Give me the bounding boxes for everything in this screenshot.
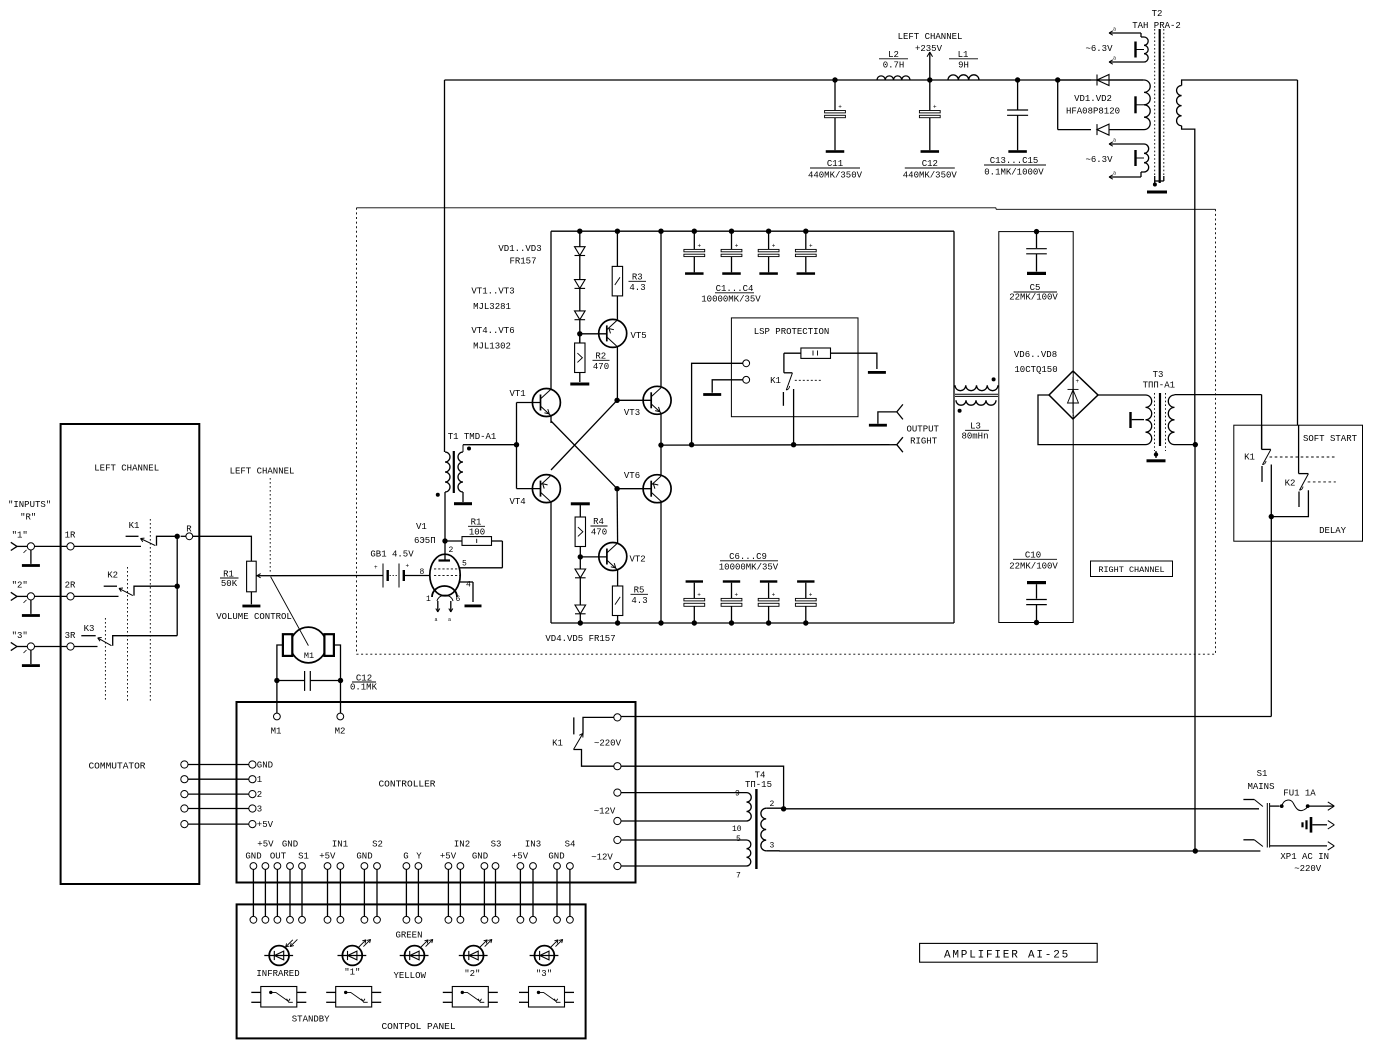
svg-text:GND: GND <box>548 851 564 861</box>
svg-text:VT4..VT6: VT4..VT6 <box>471 326 514 336</box>
svg-text:S3: S3 <box>491 839 502 849</box>
svg-text:~220V: ~220V <box>1294 864 1322 874</box>
svg-text:"3": "3" <box>536 969 552 979</box>
svg-text:STANDBY: STANDBY <box>292 1015 330 1025</box>
svg-text:VT1..VT3: VT1..VT3 <box>471 287 514 297</box>
svg-text:COMMUTATOR: COMMUTATOR <box>88 761 145 772</box>
svg-text:3R: 3R <box>65 631 76 641</box>
svg-text:YELLOW: YELLOW <box>393 971 426 981</box>
svg-text:CONTROLLER: CONTROLLER <box>378 779 435 790</box>
svg-text:GND: GND <box>282 839 298 849</box>
svg-text:+: + <box>809 243 813 250</box>
svg-text:INFRARED: INFRARED <box>256 969 299 979</box>
svg-text:RIGHT: RIGHT <box>910 437 938 447</box>
svg-text:MJL3281: MJL3281 <box>473 302 511 312</box>
svg-text:VD4.VD5 FR157: VD4.VD5 FR157 <box>545 634 615 644</box>
svg-text:a: a <box>1113 56 1116 62</box>
svg-text:2: 2 <box>257 790 262 800</box>
svg-text:4.3: 4.3 <box>631 596 647 606</box>
svg-text:a: a <box>448 617 451 623</box>
svg-text:ТПП-А1: ТПП-А1 <box>1143 380 1175 390</box>
svg-text:+: + <box>809 592 813 599</box>
svg-text:T3: T3 <box>1153 370 1164 380</box>
svg-text:3: 3 <box>257 805 262 815</box>
svg-text:G: G <box>403 851 408 861</box>
svg-text:"2": "2" <box>464 969 480 979</box>
svg-text:TAH PRA-2: TAH PRA-2 <box>1132 21 1181 31</box>
svg-text:OUT: OUT <box>270 851 287 861</box>
svg-text:GND: GND <box>472 851 488 861</box>
svg-text:22MK/100V: 22MK/100V <box>1009 293 1058 303</box>
svg-text:2R: 2R <box>65 581 76 591</box>
svg-text:1: 1 <box>257 775 262 785</box>
svg-text:LEFT CHANNEL: LEFT CHANNEL <box>94 464 159 474</box>
svg-text:T1 TMD-A1: T1 TMD-A1 <box>448 432 497 442</box>
svg-text:~6.3V: ~6.3V <box>1085 44 1113 54</box>
svg-text:+5V: +5V <box>257 820 274 830</box>
svg-text:K1: K1 <box>129 521 140 531</box>
svg-text:9H: 9H <box>958 61 969 71</box>
svg-text:M1: M1 <box>271 727 282 737</box>
svg-text:IN1: IN1 <box>332 839 348 849</box>
svg-text:VD1.VD2: VD1.VD2 <box>1074 94 1112 104</box>
svg-text:S1: S1 <box>1257 769 1268 779</box>
svg-text:FU1 1A: FU1 1A <box>1283 789 1316 799</box>
svg-text:XP1 AC IN: XP1 AC IN <box>1280 852 1329 862</box>
svg-text:K1: K1 <box>770 376 781 386</box>
svg-text:a: a <box>1113 138 1116 144</box>
svg-text:GND: GND <box>257 761 273 771</box>
svg-text:Y: Y <box>416 851 422 861</box>
svg-text:a: a <box>435 617 438 623</box>
svg-text:a: a <box>1113 171 1116 177</box>
svg-text:"R": "R" <box>20 512 36 522</box>
svg-text:~6.3V: ~6.3V <box>1085 155 1113 165</box>
svg-text:CONTPOL PANEL: CONTPOL PANEL <box>381 1021 455 1032</box>
svg-text:"1": "1" <box>344 968 360 978</box>
svg-text:+: + <box>838 104 842 111</box>
svg-text:K1: K1 <box>1244 452 1255 462</box>
svg-text:VT5: VT5 <box>631 331 647 341</box>
svg-text:IN2: IN2 <box>454 839 470 849</box>
svg-text:+: + <box>406 563 410 570</box>
svg-text:+5V: +5V <box>440 851 457 861</box>
svg-text:+: + <box>735 243 739 250</box>
svg-text:C12: C12 <box>922 159 938 169</box>
svg-text:K3: K3 <box>84 624 95 634</box>
svg-text:VT4: VT4 <box>510 497 526 507</box>
svg-text:OUTPUT: OUTPUT <box>907 425 940 435</box>
svg-text:DELAY: DELAY <box>1319 526 1347 536</box>
svg-text:6Э5П: 6Э5П <box>414 536 436 546</box>
svg-text:0.1MK/1000V: 0.1MK/1000V <box>984 168 1044 178</box>
svg-text:VT2: VT2 <box>630 555 646 565</box>
svg-text:10CTQ150: 10CTQ150 <box>1014 365 1057 375</box>
svg-text:C13...C15: C13...C15 <box>990 156 1039 166</box>
svg-text:+: + <box>374 564 378 571</box>
svg-text:T2: T2 <box>1152 9 1163 19</box>
svg-text:-: - <box>1072 412 1076 419</box>
svg-text:S2: S2 <box>372 839 383 849</box>
svg-text:5: 5 <box>736 835 741 844</box>
svg-text:VT6: VT6 <box>624 471 640 481</box>
svg-text:22MK/100V: 22MK/100V <box>1009 562 1058 572</box>
svg-text:+: + <box>698 243 702 250</box>
svg-text:RIGHT CHANNEL: RIGHT CHANNEL <box>1098 565 1164 575</box>
svg-text:LEFT CHANNEL: LEFT CHANNEL <box>898 32 963 42</box>
svg-text:440MK/350V: 440MK/350V <box>808 171 863 181</box>
svg-text:GREEN: GREEN <box>395 931 422 941</box>
svg-text:HFA08P8120: HFA08P8120 <box>1066 107 1120 117</box>
svg-text:R4: R4 <box>593 517 604 527</box>
svg-text:GND: GND <box>245 851 261 861</box>
svg-text:T4: T4 <box>755 771 766 781</box>
svg-text:S4: S4 <box>565 839 576 849</box>
svg-text:SOFT START: SOFT START <box>1303 434 1358 444</box>
svg-text:VD1..VD3: VD1..VD3 <box>498 244 541 254</box>
svg-text:VT3: VT3 <box>624 408 640 418</box>
svg-text:"3": "3" <box>12 631 28 641</box>
svg-text:~220V: ~220V <box>594 739 622 749</box>
svg-text:VT1: VT1 <box>510 389 526 399</box>
svg-text:440MK/350V: 440MK/350V <box>903 171 958 181</box>
svg-text:470: 470 <box>591 528 607 538</box>
svg-text:K1: K1 <box>552 739 563 749</box>
svg-text:R: R <box>186 525 192 535</box>
svg-text:+: + <box>933 104 937 111</box>
svg-text:0.7H: 0.7H <box>883 61 905 71</box>
svg-text:~12V: ~12V <box>594 807 616 817</box>
svg-text:10: 10 <box>732 825 742 834</box>
svg-text:MAINS: MAINS <box>1247 782 1274 792</box>
svg-text:+: + <box>735 592 739 599</box>
svg-text:+: + <box>772 592 776 599</box>
svg-text:3: 3 <box>770 842 775 851</box>
svg-text:MJL1302: MJL1302 <box>473 341 511 351</box>
svg-text:9: 9 <box>735 790 740 799</box>
svg-text:6: 6 <box>456 595 461 604</box>
svg-text:a: a <box>1113 27 1116 33</box>
svg-text:0.1MK: 0.1MK <box>350 683 378 693</box>
svg-text:LSP PROTECTION: LSP PROTECTION <box>754 327 830 337</box>
svg-text:1: 1 <box>426 595 431 604</box>
svg-text:ТП-15: ТП-15 <box>745 780 772 790</box>
svg-text:C11: C11 <box>827 159 843 169</box>
svg-text:K2: K2 <box>107 570 118 580</box>
svg-text:1R: 1R <box>65 531 76 541</box>
svg-text:"2": "2" <box>12 581 28 591</box>
svg-text:V1: V1 <box>416 522 427 532</box>
svg-text:50K: 50K <box>221 579 238 589</box>
svg-text:GND: GND <box>356 851 372 861</box>
svg-text:"INPUTS": "INPUTS" <box>8 500 51 510</box>
svg-text:VD6..VD8: VD6..VD8 <box>1014 350 1057 360</box>
svg-text:IN3: IN3 <box>525 839 541 849</box>
svg-text:+5V: +5V <box>257 839 274 849</box>
svg-text:80mHn: 80mHn <box>961 431 988 441</box>
svg-text:4.3: 4.3 <box>629 283 645 293</box>
svg-text:+235V: +235V <box>915 44 943 54</box>
svg-text:"1": "1" <box>12 531 28 541</box>
svg-text:LEFT CHANNEL: LEFT CHANNEL <box>230 467 295 477</box>
svg-text:2: 2 <box>449 546 454 555</box>
svg-text:7: 7 <box>736 872 741 881</box>
svg-text:M2: M2 <box>335 727 346 737</box>
svg-text:M1: M1 <box>304 651 314 661</box>
svg-text:+: + <box>697 592 701 599</box>
svg-text:+: + <box>772 243 776 250</box>
svg-text:VOLUME CONTROL: VOLUME CONTROL <box>216 612 292 622</box>
svg-text:FR157: FR157 <box>509 257 536 267</box>
svg-text:10000MK/35V: 10000MK/35V <box>719 562 779 572</box>
svg-text:+5V: +5V <box>319 851 336 861</box>
svg-text:~12V: ~12V <box>591 853 613 863</box>
svg-text:+5V: +5V <box>512 851 529 861</box>
svg-text:10000MK/35V: 10000MK/35V <box>701 295 761 305</box>
svg-text:AMPLIFIER AI-25: AMPLIFIER AI-25 <box>944 949 1070 961</box>
svg-text:K2: K2 <box>1285 478 1296 488</box>
svg-text:+: + <box>1076 378 1080 385</box>
svg-text:470: 470 <box>593 362 609 372</box>
svg-text:5: 5 <box>462 560 467 569</box>
svg-text:S1: S1 <box>298 851 309 861</box>
svg-text:100: 100 <box>469 527 485 537</box>
svg-text:GB1 4.5V: GB1 4.5V <box>370 550 414 560</box>
